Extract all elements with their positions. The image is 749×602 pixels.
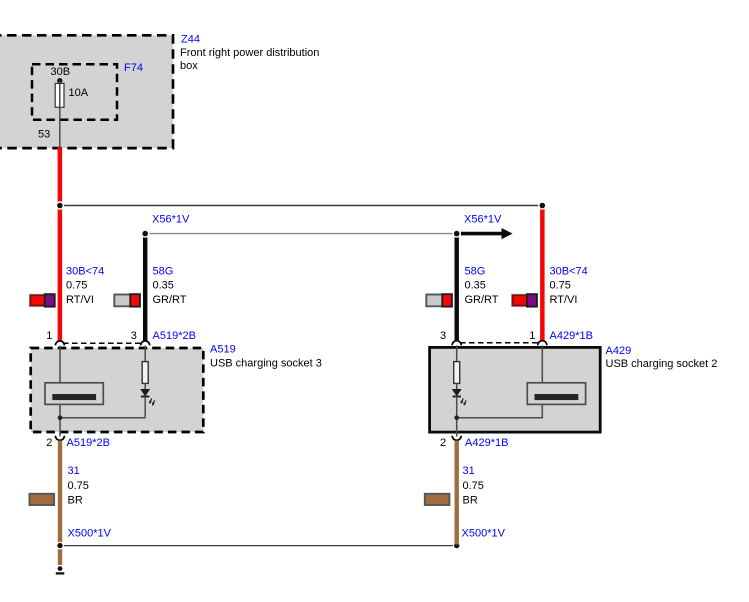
- wire color swatch GR/RT (left): [114, 294, 140, 306]
- svg-text:30B: 30B: [51, 66, 71, 78]
- svg-text:0.35: 0.35: [465, 280, 486, 292]
- label 58G / 0.35 / GR/RT (left): [153, 265, 187, 306]
- wire: LED down to junction (A429): [456, 397, 458, 437]
- X56*1V direction arrow: [461, 228, 513, 239]
- fuse F74 body: [55, 83, 64, 107]
- label 31 / 0.75 / BR (left): [68, 465, 89, 506]
- svg-text:F74: F74: [124, 62, 143, 74]
- svg-text:2: 2: [46, 437, 52, 449]
- svg-text:A429: A429: [606, 345, 632, 357]
- svg-text:X56*1V: X56*1V: [464, 214, 502, 226]
- node: junction top of right red wire: [538, 201, 546, 209]
- svg-text:3: 3: [131, 330, 137, 342]
- wire color swatch GR/RT (right): [426, 294, 452, 306]
- wire: pin3 down to resistor (A429): [456, 345, 458, 362]
- label 30B&lt;74 / 0.75 / RT/VI (right): [550, 265, 588, 306]
- svg-text:BR: BR: [68, 494, 83, 506]
- node X500*1V left: [56, 542, 64, 550]
- label 31 / 0.75 / BR (right): [463, 465, 484, 506]
- wire 31 brown (left): [58, 441, 62, 566]
- wire: internal horizontal rail (A519): [60, 417, 145, 419]
- svg-text:A429*1B: A429*1B: [550, 330, 593, 342]
- svg-text:31: 31: [463, 465, 475, 477]
- resistor (A519 LED series): [142, 362, 148, 384]
- device A429 box: [430, 347, 601, 432]
- USB socket symbol (A429): [527, 383, 585, 405]
- wire color swatch BR (left): [30, 494, 55, 505]
- node X56*1V right: [453, 229, 461, 237]
- svg-text:GR/RT: GR/RT: [153, 294, 187, 306]
- wire: socket down to junction and pin 2 (A519): [59, 404, 61, 436]
- wire: X56*1V bus: [145, 233, 457, 235]
- wire 30B&lt;74 red (right): [540, 206, 545, 341]
- svg-text:Z44: Z44: [181, 34, 200, 46]
- power distribution box Z44: [0, 35, 173, 148]
- svg-text:X500*1V: X500*1V: [462, 528, 506, 540]
- wire: pin1 into socket (A429): [541, 345, 543, 383]
- svg-text:0.35: 0.35: [153, 280, 174, 292]
- connector A429*1B dashed line: [460, 342, 539, 344]
- wire: socket down and left to junction (A429): [457, 404, 543, 417]
- svg-text:RT/VI: RT/VI: [66, 294, 94, 306]
- wire color swatch RT/VI (right): [512, 294, 537, 306]
- svg-text:X500*1V: X500*1V: [68, 528, 112, 540]
- device A519 box: [31, 348, 204, 432]
- wire: pin1 into socket (A519): [59, 346, 61, 384]
- svg-text:31: 31: [68, 465, 80, 477]
- svg-text:1: 1: [46, 330, 52, 342]
- connector A519*2B dashed line: [63, 342, 142, 344]
- svg-text:BR: BR: [463, 494, 478, 506]
- svg-text:0.75: 0.75: [550, 280, 571, 292]
- node: internal junction (A429): [454, 415, 459, 420]
- svg-text:box: box: [180, 60, 198, 72]
- svg-text:58G: 58G: [153, 265, 174, 277]
- wire: through fuse down to box edge: [59, 81, 61, 148]
- wire 58G black (left): [143, 234, 147, 341]
- svg-text:53: 53: [38, 129, 50, 141]
- svg-text:GR/RT: GR/RT: [465, 294, 499, 306]
- USB socket symbol (A519): [45, 383, 103, 405]
- pin 1 connector arc (A429): [538, 341, 547, 346]
- node: fuse top terminal dot: [57, 78, 62, 83]
- svg-text:A519*2B: A519*2B: [67, 437, 110, 449]
- pin 2 connector arc (A519): [55, 436, 64, 441]
- label 58G / 0.35 / GR/RT (right): [465, 265, 499, 306]
- svg-text:RT/VI: RT/VI: [550, 294, 578, 306]
- svg-text:A429*1B: A429*1B: [465, 437, 508, 449]
- svg-text:USB charging socket 3: USB charging socket 3: [210, 357, 322, 369]
- svg-text:0.75: 0.75: [66, 280, 87, 292]
- svg-text:2: 2: [440, 437, 446, 449]
- node X500*1V right: [453, 542, 461, 550]
- wire 31 brown (right): [455, 441, 459, 545]
- wire 58G black (right): [455, 234, 459, 341]
- label 30B&lt;74 / 0.75 / RT/VI (left): [66, 265, 104, 306]
- pin 1 connector arc: [55, 341, 64, 346]
- svg-text:X56*1V: X56*1V: [152, 214, 190, 226]
- fuse box F74: [32, 64, 117, 119]
- pin 2 connector arc (A429): [452, 436, 461, 441]
- node X56*1V left: [141, 229, 149, 237]
- resistor (A429 LED series): [454, 362, 460, 384]
- pin 3 connector arc: [141, 341, 150, 346]
- svg-text:1: 1: [529, 330, 535, 342]
- svg-text:30B<74: 30B<74: [550, 265, 588, 277]
- wire: X500*1V bus: [60, 545, 457, 547]
- svg-text:3: 3: [440, 330, 446, 342]
- svg-text:58G: 58G: [465, 265, 486, 277]
- svg-text:USB charging socket 2: USB charging socket 2: [606, 358, 718, 370]
- wire: bus from red left to red right: [60, 205, 542, 207]
- svg-text:A519: A519: [210, 344, 236, 356]
- wire: LED down to junction rail (A519): [144, 397, 146, 418]
- pin 3 connector arc (A429): [452, 341, 461, 346]
- node: junction on left red wire: [56, 201, 64, 209]
- node: internal junction (A519): [58, 415, 63, 420]
- wire 30B&lt;74 red (left): [58, 147, 63, 340]
- wire: pin3 down to resistor (A519): [144, 346, 146, 362]
- wire color swatch BR (right): [425, 494, 450, 505]
- ground symbol: [56, 566, 65, 573]
- svg-text:0.75: 0.75: [68, 480, 89, 492]
- svg-text:Front right power distribution: Front right power distribution: [180, 47, 319, 59]
- LED symbol (A429): [453, 383, 467, 406]
- svg-text:A519*2B: A519*2B: [153, 330, 196, 342]
- wire color swatch RT/VI (left): [30, 294, 55, 306]
- svg-text:10A: 10A: [69, 87, 89, 99]
- svg-text:30B<74: 30B<74: [66, 265, 104, 277]
- LED symbol (A519): [141, 383, 155, 406]
- svg-text:0.75: 0.75: [463, 480, 484, 492]
